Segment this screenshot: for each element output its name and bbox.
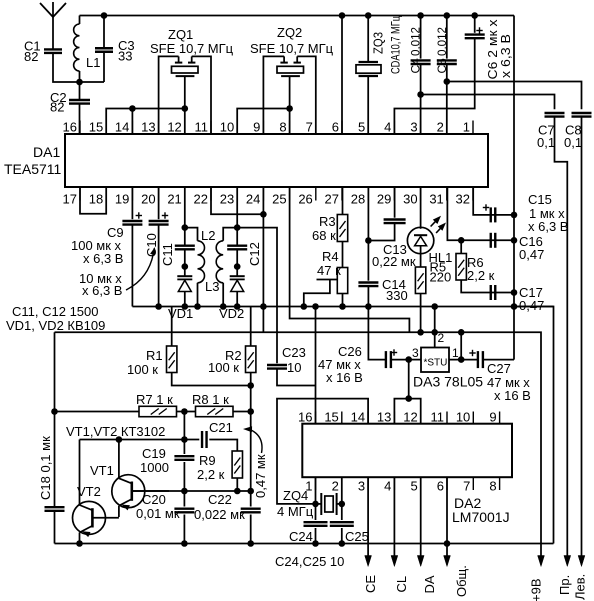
wire pin 32 to C15 — [473, 187, 514, 215]
svg-text:LM7001J: LM7001J — [452, 509, 510, 525]
pin 7 tick — [315, 121, 317, 135]
svg-text:х 6,3 В: х 6,3 В — [83, 251, 123, 266]
svg-text:31: 31 — [429, 192, 443, 207]
capacitor C10 — [158, 187, 160, 219]
svg-text:R7 1 к: R7 1 к — [136, 392, 173, 407]
svg-text:7: 7 — [463, 479, 470, 494]
node R7/R8 junction — [181, 408, 188, 415]
wire DA3 pin1 to +9V — [460, 332, 462, 359]
svg-text:0,47 мк: 0,47 мк — [253, 454, 268, 498]
pin 3 tick — [420, 121, 422, 135]
svg-text:1: 1 — [463, 120, 470, 135]
svg-text:R4: R4 — [322, 249, 339, 264]
node C25 ground junction — [339, 540, 346, 547]
capacitor C23 — [267, 364, 287, 366]
svg-text:82: 82 — [24, 49, 38, 64]
svg-text:0,01 мк: 0,01 мк — [136, 506, 180, 521]
svg-text:х 6,3 В: х 6,3 В — [499, 34, 513, 78]
node pin6 ground junction — [444, 540, 451, 547]
node pin21 L2 junction — [182, 224, 189, 231]
wire pin 31 to C16 — [447, 187, 514, 240]
pin 12 tick — [184, 121, 186, 135]
svg-text:ZQ4: ZQ4 — [283, 488, 308, 503]
svg-text:C4: C4 — [409, 58, 423, 74]
svg-text:12: 12 — [403, 410, 417, 425]
pin 20 tick — [158, 187, 160, 201]
svg-text:SFE 10,7 МГц: SFE 10,7 МГц — [250, 41, 334, 56]
capacitor C20 — [183, 491, 185, 507]
wire R2 down — [250, 373, 252, 492]
pin 21 tick — [184, 187, 186, 201]
wire ZQ1 out to pin 11 — [192, 56, 211, 134]
svg-text:2: 2 — [332, 479, 339, 494]
svg-text:4 МГц: 4 МГц — [277, 504, 314, 519]
svg-text:C18 0,1 мк: C18 0,1 мк — [38, 436, 53, 500]
wire pins 17-18 bracket — [80, 187, 106, 214]
svg-text:3: 3 — [358, 479, 365, 494]
wire C4 branch to C7 — [421, 95, 555, 110]
wire R4 tap — [317, 279, 338, 281]
LED HL1 — [420, 187, 422, 229]
wire 5V to DA2 pins 13 12 — [408, 360, 410, 399]
capacitor C3 — [95, 47, 113, 49]
node L2 ground junction — [194, 303, 201, 310]
node C19 bottom junction — [181, 488, 188, 495]
wire DA3 pin3 to C26 — [409, 359, 421, 361]
wire L3 top bracket — [223, 228, 237, 241]
wire rail1 to DA3 pin2 — [434, 307, 436, 348]
node C11/VD1 junction — [182, 263, 189, 270]
node DA3 pin1 junction — [458, 356, 465, 363]
capacitor C7 — [545, 112, 565, 114]
svg-text:х 16 В: х 16 В — [326, 370, 363, 385]
svg-text:C11, C12 1500: C11, C12 1500 — [12, 304, 99, 319]
pin 5 tick — [367, 121, 369, 135]
capacitor C8 — [572, 112, 592, 114]
wire ground right vertical — [513, 16, 515, 360]
wire L2 top bracket — [185, 228, 198, 241]
node R1/R2 junction — [247, 382, 254, 389]
node R2/R8 junction — [247, 408, 254, 415]
DA2 pin 7 tick — [472, 477, 474, 490]
pin 10 tick — [236, 121, 238, 135]
svg-text:10: 10 — [456, 410, 470, 425]
pin 29 tick — [393, 187, 395, 201]
node VT2 emitter ground junction — [76, 540, 83, 547]
capacitor C25 — [341, 477, 343, 520]
output arrow Лев. — [578, 556, 585, 567]
svg-text:4: 4 — [384, 479, 391, 494]
wire DA2 pin14 to crystal — [277, 399, 368, 504]
wire bottom ground rail — [55, 543, 554, 545]
crystal ZQ4 — [320, 493, 322, 515]
node C20 ground junction — [181, 540, 188, 547]
wire C8 to right output — [581, 117, 583, 556]
svg-text:R3: R3 — [319, 214, 336, 229]
svg-text:1: 1 — [452, 346, 459, 360]
node pin 6 rail junction — [339, 12, 346, 19]
resistor R7 — [55, 411, 140, 413]
node C19 top junction — [181, 436, 188, 443]
capacitor C17 — [490, 285, 492, 300]
DA2 pin 14 tick — [367, 412, 369, 424]
wire pin 3 — [420, 95, 422, 135]
svg-text:C11: C11 — [160, 243, 175, 266]
svg-text:CDA10,7 МГц: CDA10,7 МГц — [389, 16, 403, 74]
node C5 rail junction — [444, 12, 451, 19]
svg-text:20: 20 — [141, 192, 155, 207]
svg-text:L2: L2 — [201, 228, 215, 243]
svg-text:220: 220 — [430, 270, 452, 285]
DA2 pin 15 tick — [341, 412, 343, 424]
wire ground jog right — [514, 307, 554, 544]
svg-text:DA: DA — [422, 575, 437, 593]
pin 11 tick — [210, 121, 212, 135]
inductor L1 — [74, 24, 80, 71]
node C5/pin2 junction — [444, 78, 451, 85]
wire pin 14 — [131, 109, 133, 135]
wire rail1 to DA2 pin16 — [315, 307, 317, 424]
svg-text:3: 3 — [410, 120, 417, 135]
node C6 rail junction — [471, 12, 478, 19]
resistor R2 — [250, 307, 252, 347]
wire L3 bottom — [222, 283, 224, 307]
svg-text:0,22 мк: 0,22 мк — [372, 254, 416, 269]
arrow 10мк to C10 — [126, 250, 154, 290]
DA2 pin 11 tick — [446, 412, 448, 424]
svg-text:C27: C27 — [487, 361, 511, 376]
wire DA2 pin4 output CL — [393, 477, 395, 556]
wire base row — [132, 490, 251, 492]
svg-text:VT1: VT1 — [90, 463, 114, 478]
pin 25 tick — [289, 187, 291, 201]
pin 30 tick — [420, 187, 422, 201]
svg-text:C19: C19 — [142, 446, 166, 461]
svg-text:21: 21 — [167, 192, 181, 207]
svg-text:TEA5711: TEA5711 — [4, 161, 62, 177]
IC DA1 TEA5711 — [65, 134, 488, 187]
node ZQ4 pin2 junction — [339, 501, 346, 508]
node VT1 collector junction — [116, 436, 123, 443]
svg-text:82: 82 — [50, 100, 64, 115]
svg-text:47 к: 47 к — [317, 263, 341, 278]
node C17 ground junction — [511, 289, 518, 296]
pin 4 tick — [393, 121, 395, 135]
svg-text:С6 2 мк х: С6 2 мк х — [486, 19, 500, 80]
svg-text:C23: C23 — [282, 345, 306, 360]
pin 24 tick — [262, 187, 264, 201]
svg-text:25: 25 — [272, 192, 286, 207]
svg-text:L1: L1 — [86, 55, 100, 70]
svg-text:СЕ: СЕ — [363, 575, 378, 593]
svg-text:33: 33 — [118, 49, 132, 64]
svg-text:C12: C12 — [247, 242, 262, 266]
svg-text:ZQ3: ZQ3 — [371, 32, 386, 54]
node C14 ground junction — [365, 303, 372, 310]
DA2 pin 16 tick — [315, 412, 317, 424]
node L1/C2 junction — [76, 79, 83, 86]
node R5 rail3 junction — [417, 329, 424, 336]
node C15 ground junction — [511, 212, 518, 219]
crystal resonator ZQ3 — [367, 16, 369, 63]
svg-text:0,1: 0,1 — [537, 135, 555, 150]
svg-text:24: 24 — [246, 192, 260, 207]
DA2 pin 9 tick — [499, 412, 501, 424]
node rail1 pin16 junction — [312, 303, 319, 310]
svg-text:ZQ1: ZQ1 — [168, 27, 193, 42]
wire rail 3 — [55, 332, 542, 556]
svg-text:VD1, VD2 КВ109: VD1, VD2 КВ109 — [6, 318, 105, 333]
node C4/pin3 junction — [417, 91, 424, 98]
capacitor C2 — [69, 99, 90, 101]
pin 6 tick — [341, 121, 343, 135]
wire C7 to right output — [555, 117, 568, 556]
pin 14 tick — [131, 121, 133, 135]
svg-text:13: 13 — [141, 120, 155, 135]
resistor R8 — [196, 406, 234, 416]
svg-text:13: 13 — [377, 410, 391, 425]
wire top row — [79, 439, 81, 441]
svg-text:10: 10 — [287, 360, 301, 375]
capacitor C24 — [315, 477, 317, 520]
DA2 pin 12 tick — [420, 412, 422, 424]
wire DA3 pin1 to C27 — [449, 359, 478, 361]
svg-text:330: 330 — [386, 288, 408, 303]
svg-text:29: 29 — [377, 192, 391, 207]
svg-text:0,47: 0,47 — [519, 247, 544, 262]
wire pin 21 / L2 top — [184, 187, 186, 228]
wire C1 bottom to junction — [53, 53, 104, 82]
capacitor C26 — [385, 351, 387, 368]
resistor R9 — [232, 451, 242, 478]
svg-text:100 к: 100 к — [127, 362, 158, 377]
pin 9 tick — [262, 121, 264, 135]
DA2 pin 10 tick — [472, 412, 474, 424]
node C24 ground junction — [312, 540, 319, 547]
wire DA2 pin6 output Общ — [446, 477, 448, 556]
svg-text:C22: C22 — [208, 492, 232, 507]
svg-text:2: 2 — [437, 120, 444, 135]
node pin 14 junction — [129, 105, 136, 112]
node C13/C14 junction — [365, 237, 372, 244]
pin 8 tick — [289, 121, 291, 135]
voltage regulator DA3 78L05 — [421, 348, 449, 373]
capacitor C1 — [44, 48, 62, 50]
svg-text:х 6,3 В: х 6,3 В — [528, 219, 568, 234]
capacitor C9 — [131, 187, 133, 219]
svg-text:17: 17 — [63, 192, 77, 207]
svg-text:0,022 мк: 0,022 мк — [194, 507, 245, 522]
node pin 24 junction — [260, 211, 267, 218]
svg-text:DA1: DA1 — [33, 144, 60, 160]
svg-text:Пр.: Пр. — [557, 575, 572, 595]
svg-text:C5: C5 — [435, 58, 449, 74]
capacitor C27 — [477, 351, 479, 368]
node +9V rail3 junction — [458, 329, 465, 336]
wire pin 23 branch to C23 — [237, 228, 277, 364]
svg-text:9: 9 — [489, 410, 496, 425]
DA2 pin 3 tick — [367, 477, 369, 490]
svg-text:2,2 к: 2,2 к — [467, 268, 495, 283]
node R6 top junction — [458, 237, 465, 244]
node pin23 L3 junction — [234, 224, 241, 231]
pin 32 tick — [472, 187, 474, 201]
capacitor C15 — [490, 207, 492, 222]
node VD1 ground junction — [182, 303, 189, 310]
wire ZQ1 ground to pin 12 — [184, 76, 186, 134]
DA2 pin 1 tick — [315, 477, 317, 490]
wire pin 2 — [446, 82, 448, 135]
svg-text:22: 22 — [194, 192, 208, 207]
output arrow +9В — [538, 556, 545, 567]
resistor R6 — [460, 240, 462, 253]
wire R7 to R8 — [177, 411, 196, 413]
svg-text:*STU: *STU — [424, 358, 448, 369]
svg-text:6: 6 — [437, 479, 444, 494]
svg-text:VT2: VT2 — [77, 484, 101, 499]
capacitor C19 — [183, 440, 185, 455]
DA2 pin 13 tick — [393, 412, 395, 424]
svg-text:27: 27 — [325, 192, 339, 207]
node R4 tap ground junction — [301, 303, 308, 310]
capacitor C13 — [394, 187, 396, 218]
pin 22 tick — [210, 187, 212, 201]
svg-text:8: 8 — [489, 479, 496, 494]
wire R7R8 junction down to C19 row — [183, 412, 185, 440]
node R4 ground junction — [339, 303, 346, 310]
svg-text:16: 16 — [298, 410, 312, 425]
svg-text:23: 23 — [220, 192, 234, 207]
capacitor C4 — [420, 16, 422, 59]
inductor L3 — [216, 241, 223, 283]
wire pin 24 down to rails — [262, 187, 264, 332]
wire ZQ2 ground to pin 8 — [289, 76, 291, 134]
svg-text:100 к: 100 к — [208, 360, 239, 375]
resistor R5 — [420, 254, 422, 267]
resistor R1 — [171, 307, 173, 347]
capacitor C18 — [45, 506, 65, 508]
svg-text:2,2 к: 2,2 к — [197, 467, 225, 482]
svg-text:VD2: VD2 — [219, 306, 244, 321]
svg-text:10: 10 — [220, 120, 234, 135]
svg-text:VT1,VT2 КТ3102: VT1,VT2 КТ3102 — [66, 424, 165, 439]
node DA3 pin3 junction — [405, 356, 412, 363]
node VD2 ground junction — [234, 303, 241, 310]
capacitor C6 — [474, 16, 476, 33]
node rail1 right junction — [511, 303, 518, 310]
capacitor C14 — [367, 187, 369, 281]
wire pin 23 / L3 top — [236, 187, 238, 228]
varicap VD2 — [236, 267, 238, 277]
capacitor C16 — [490, 233, 492, 248]
svg-text:R8 1 к: R8 1 к — [192, 392, 229, 407]
node C12/VD2 junction — [234, 263, 241, 270]
svg-text:11: 11 — [431, 410, 445, 425]
node R7 frame junction — [51, 408, 58, 415]
svg-text:19: 19 — [115, 192, 129, 207]
wire R5 to rail3 — [420, 294, 422, 333]
node L3 ground junction — [220, 303, 227, 310]
svg-text:C21: C21 — [209, 420, 233, 435]
svg-text:32: 32 — [456, 192, 470, 207]
svg-text:0,47: 0,47 — [519, 298, 544, 313]
svg-text:8: 8 — [279, 120, 286, 135]
svg-text:C25: C25 — [345, 529, 369, 544]
wire R8 right — [233, 411, 251, 413]
node C22 ground junction — [247, 540, 254, 547]
svg-text:+9В: +9В — [529, 579, 544, 601]
node C10 ground junction — [155, 303, 162, 310]
svg-text:0,012: 0,012 — [409, 27, 423, 56]
node ZQ3 rail junction — [365, 12, 372, 19]
wire top ground rail — [80, 15, 515, 17]
svg-text:4: 4 — [384, 120, 391, 135]
svg-text:3: 3 — [412, 346, 419, 360]
node rail1/DA3 junction — [431, 303, 438, 310]
pin 26 tick — [315, 187, 317, 201]
antenna WA1 — [52, 2, 54, 50]
resistor R4 trimmer — [342, 242, 344, 268]
svg-text:SFE 10,7 МГц: SFE 10,7 МГц — [150, 41, 234, 56]
pin 15 tick — [105, 121, 107, 135]
capacitor C21 — [201, 431, 203, 448]
wire R1 bottom — [172, 373, 251, 386]
wire DA2 pin5 output DA — [420, 477, 422, 556]
svg-text:9: 9 — [253, 120, 260, 135]
inductor L2 — [198, 241, 205, 283]
node ZQ2 ground junction — [286, 105, 293, 112]
node 5V bracket junction — [405, 395, 412, 402]
wire C5 branch to C8 — [447, 82, 582, 110]
wire L2 bottom — [197, 283, 199, 307]
node C3 top rail junction — [101, 12, 108, 19]
wire pins 15-12 bracket — [106, 109, 185, 135]
wire pins 10-8 bracket — [237, 109, 289, 135]
pin 17 tick — [79, 187, 81, 201]
node ZQ1 ground junction — [182, 105, 189, 112]
wire left frame — [54, 332, 56, 507]
svg-text:6: 6 — [332, 120, 339, 135]
svg-text:68 к: 68 к — [312, 228, 336, 243]
DA2 pin 5 tick — [420, 477, 422, 490]
svg-text:Общ.: Общ. — [454, 565, 469, 597]
pin 27 tick — [341, 187, 343, 201]
node R2/C22 junction — [247, 488, 254, 495]
pin 1 tick — [472, 121, 474, 135]
wire pin 22 to pin 24 — [211, 187, 263, 214]
wire ZQ1 in from pin 13 — [159, 56, 179, 134]
svg-text:28: 28 — [351, 192, 365, 207]
svg-text:15: 15 — [89, 120, 103, 135]
svg-text:DA3 78L05: DA3 78L05 — [413, 374, 483, 390]
svg-text:2: 2 — [438, 331, 445, 345]
capacitor C11 — [175, 244, 195, 246]
svg-text:C20: C20 — [142, 492, 166, 507]
svg-text:C24: C24 — [289, 529, 313, 544]
varicap VD1 — [184, 267, 186, 277]
svg-text:5: 5 — [410, 479, 417, 494]
svg-text:CL: CL — [394, 576, 409, 593]
node pin 24 ground junction — [260, 303, 267, 310]
svg-text:7: 7 — [306, 120, 313, 135]
pin 28 tick — [367, 187, 369, 201]
node C4 rail junction — [417, 12, 424, 19]
capacitor C22 — [250, 491, 252, 507]
svg-text:14: 14 — [351, 410, 365, 425]
svg-text:R1: R1 — [146, 348, 163, 363]
svg-text:26: 26 — [298, 192, 312, 207]
pin 23 tick — [236, 187, 238, 201]
